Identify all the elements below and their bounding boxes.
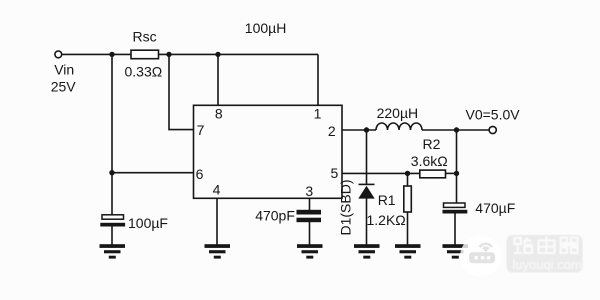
junction R2 output node bbox=[454, 171, 459, 176]
capacitor C2 470µF top plate bbox=[444, 203, 466, 207]
svg-text:luyouqi.com: luyouqi.com bbox=[513, 257, 582, 272]
wire to pin 6 bbox=[112, 172, 194, 174]
junction input rail bbox=[109, 52, 114, 57]
junction pin6 branch bbox=[109, 170, 114, 175]
svg-text:1: 1 bbox=[314, 106, 322, 122]
capacitor C3 470pF plate 1 bbox=[297, 210, 322, 215]
svg-text:25V: 25V bbox=[51, 79, 77, 95]
svg-text:V0=5.0V: V0=5.0V bbox=[466, 107, 521, 123]
ground under pin 4 bbox=[205, 244, 231, 258]
svg-text:6: 6 bbox=[196, 166, 204, 182]
wire C3 to ground bbox=[309, 222, 311, 245]
capacitor C1 100µF top plate bbox=[102, 215, 124, 219]
op-amp U1 IC box bbox=[194, 105, 343, 198]
capacitor C2 470µF bottom plate bbox=[443, 210, 468, 214]
ground under C1 bbox=[100, 244, 126, 258]
svg-text:220µH: 220µH bbox=[377, 105, 419, 121]
wire pin 8 bbox=[217, 54, 219, 105]
junction pin8 branch bbox=[215, 52, 220, 57]
svg-text:Rsc: Rsc bbox=[133, 29, 157, 45]
svg-text:3: 3 bbox=[305, 183, 313, 199]
svg-text:0.33Ω: 0.33Ω bbox=[125, 64, 163, 80]
svg-text:2: 2 bbox=[328, 123, 336, 139]
wire Rsc to pin 1 rail bbox=[159, 53, 319, 55]
svg-text:3.6kΩ: 3.6kΩ bbox=[411, 153, 448, 169]
output terminal V0 bbox=[489, 126, 496, 133]
wire R2 to output rail bbox=[446, 172, 457, 174]
resistor R2 bbox=[420, 170, 446, 178]
wire C1 to ground bbox=[111, 227, 113, 245]
svg-text:100µF: 100µF bbox=[128, 215, 168, 231]
watermark glyph 路 bbox=[514, 238, 532, 254]
junction D1 branch bbox=[364, 127, 369, 132]
wire C2 to ground bbox=[454, 214, 456, 245]
capacitor C3 470pF plate 2 bbox=[297, 218, 322, 223]
watermark text band bbox=[507, 235, 583, 273]
svg-text:470µF: 470µF bbox=[475, 200, 515, 216]
svg-text:R1: R1 bbox=[378, 192, 396, 208]
resistor R1 bbox=[404, 186, 412, 212]
diode D1 cathode bar bbox=[359, 184, 375, 186]
svg-text:8: 8 bbox=[215, 105, 223, 121]
inductor L2 220µH bbox=[376, 123, 422, 130]
junction pin7 branch bbox=[166, 52, 171, 57]
svg-text:1.2KΩ: 1.2KΩ bbox=[367, 212, 406, 228]
ground under C2 bbox=[443, 244, 469, 258]
wire pin 2 to inductor bbox=[342, 129, 376, 131]
wire input rail down to 100µF bbox=[111, 54, 113, 215]
capacitor C1 100µF bottom plate bbox=[100, 223, 125, 227]
watermark logo circle bbox=[460, 235, 501, 276]
watermark glyph 器 bbox=[560, 238, 579, 254]
svg-text:Vin: Vin bbox=[54, 62, 74, 78]
wire pin 5 to R2 bbox=[342, 172, 420, 174]
wire R1 top bbox=[407, 173, 409, 186]
junction R1 branch bbox=[405, 171, 410, 176]
wire R1 bottom to ground bbox=[407, 212, 409, 245]
wire output rail down to 470µF bbox=[456, 130, 458, 203]
svg-text:5: 5 bbox=[331, 165, 339, 181]
svg-text:D1(SBD): D1(SBD) bbox=[338, 179, 354, 235]
junction output node bbox=[454, 127, 459, 132]
watermark router icon bbox=[480, 244, 492, 249]
wire D1 cathode bbox=[366, 130, 368, 185]
wire D1 anode to ground bbox=[366, 197, 368, 245]
ground under C3 bbox=[297, 244, 323, 258]
svg-text:100µH: 100µH bbox=[245, 20, 287, 36]
input terminal Vin bbox=[55, 51, 62, 58]
wire inductor to output terminal bbox=[422, 129, 489, 131]
ground under R1 bbox=[395, 244, 421, 258]
svg-text:7: 7 bbox=[197, 122, 205, 138]
resistor Rsc bbox=[131, 50, 159, 59]
wire Vin to Rsc bbox=[62, 53, 131, 55]
watermark glyph 由 bbox=[539, 237, 555, 254]
wire pin 3 down bbox=[309, 198, 311, 210]
svg-text:470pF: 470pF bbox=[255, 208, 295, 224]
wire down and right to pin 7 bbox=[169, 54, 194, 129]
wire pin 1 bbox=[317, 54, 319, 105]
svg-text:4: 4 bbox=[213, 181, 221, 197]
wire pin 4 to ground bbox=[216, 198, 218, 244]
svg-text:R2: R2 bbox=[423, 136, 441, 152]
ground under D1 bbox=[354, 244, 380, 258]
diode D1 triangle bbox=[358, 186, 374, 199]
